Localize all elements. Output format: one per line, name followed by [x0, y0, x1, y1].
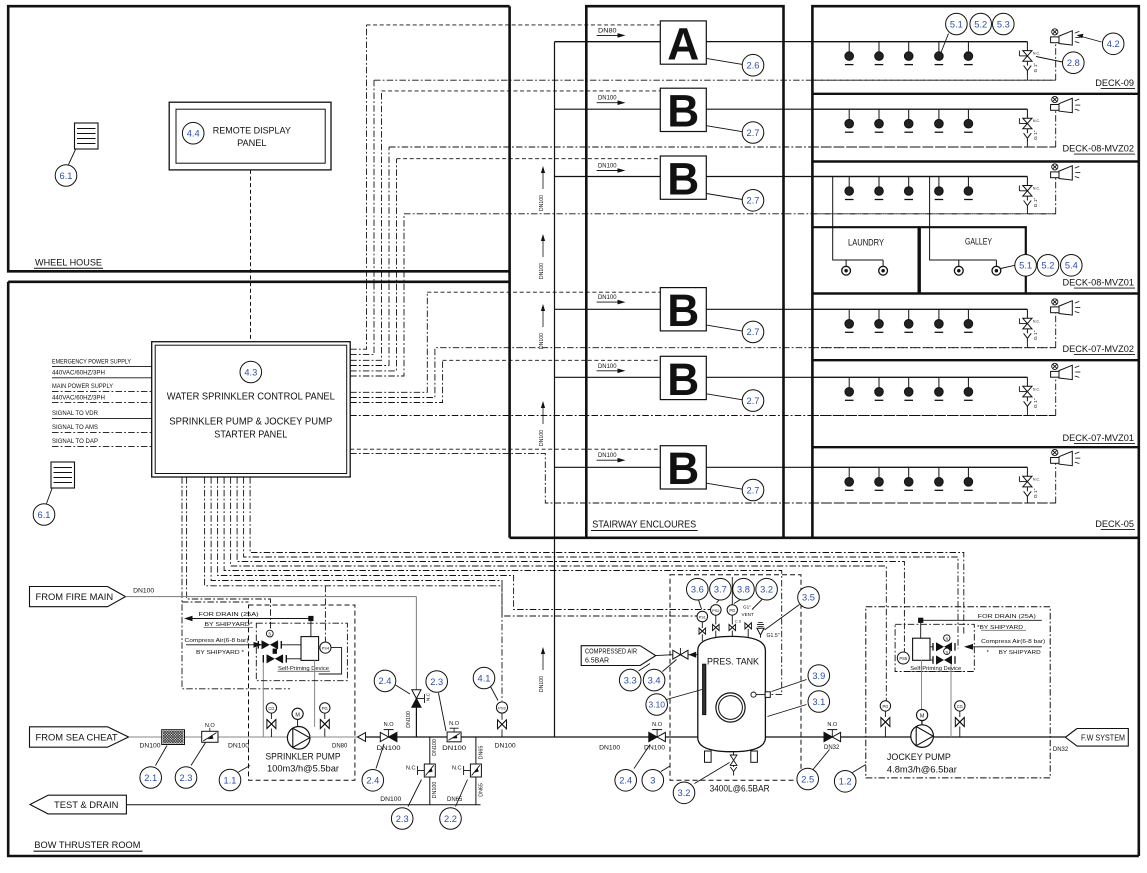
svg-text:PS5: PS5 — [899, 656, 908, 661]
circle 5.2 (galley) — [1037, 254, 1059, 276]
jockey compress air feed arrow — [966, 646, 1042, 648]
pressure switch PS1 — [697, 611, 708, 622]
main riser pipe DN100 to stairway — [554, 42, 556, 737]
DECK-07-MVZ02 sprinkler head 1 — [848, 309, 850, 319]
DECK-07-MVZ01 sprinkler head 4 — [938, 377, 940, 387]
leader to circle 6.1 lower — [47, 489, 53, 504]
leader deck-09 head to circle 5.1 — [941, 34, 949, 53]
zone B3 outlet pipe to deck-07-MVZ02 — [706, 308, 1027, 310]
zone A outlet pipe to deck-09 — [706, 41, 1027, 43]
DECK-08-MVZ02 sprinkler head 4 — [938, 109, 940, 119]
DECK-07-MVZ02 sprinkler branch pipe — [812, 308, 1027, 310]
alarm bell device 6.1 in wheel house — [75, 123, 99, 149]
fire main pipe — [126, 596, 417, 598]
svg-text:DN32: DN32 — [1053, 747, 1069, 753]
compound gauge CG sprinkler pump — [266, 703, 276, 713]
circle 5.3 (deck-09) — [993, 13, 1015, 35]
svg-text:DECK-07-MVZ01: DECK-07-MVZ01 — [1063, 433, 1134, 443]
stairway enclosure border — [586, 6, 783, 538]
control wire to pressure switch PS2 — [218, 477, 711, 609]
svg-text:FROM FIRE MAIN: FROM FIRE MAIN — [36, 591, 114, 602]
compress air feed arrow — [186, 644, 260, 646]
alarm test valve N.O rect (2.3) — [447, 732, 461, 742]
jockey pump unit dash-dot enclosure — [866, 607, 1050, 778]
control wire to stairway box B row2 — [350, 159, 396, 371]
leader to circle 2.1 — [156, 746, 168, 766]
drain valve N.C (2.2) — [470, 764, 481, 777]
laundry room box — [812, 227, 918, 293]
leader to circle 1.1 — [239, 766, 251, 773]
svg-text:SPRINKLER PUMP: SPRINKLER PUMP — [266, 750, 341, 761]
svg-text:3.2: 3.2 — [678, 788, 691, 798]
tank foot right — [751, 751, 758, 762]
svg-text:WHEEL HOUSE: WHEEL HOUSE — [35, 258, 102, 268]
svg-text:DECK-05: DECK-05 — [1095, 519, 1134, 529]
deck-07-MVZ02 / deck-07-MVZ01 boundary — [812, 359, 1138, 361]
circle 6.1 (wheel house) — [55, 165, 77, 187]
svg-text:DN100: DN100 — [539, 430, 545, 446]
circle 2.7 — [742, 190, 764, 212]
control wire to deck-09 alarm — [350, 80, 374, 354]
svg-text:STARTER PANEL: STARTER PANEL — [214, 430, 287, 441]
svg-text:2.4: 2.4 — [379, 676, 392, 686]
svg-text:4.8m3/h@6.5bar: 4.8m3/h@6.5bar — [887, 764, 957, 775]
jockey pump motor M — [917, 709, 928, 720]
DECK-05 alarm control wire — [812, 502, 1055, 504]
leader deck-09 valve to circle 2.8 — [1036, 57, 1063, 63]
deck bottom / pump room top wall — [510, 536, 1139, 539]
drain branch DN65 — [475, 737, 477, 805]
svg-text:100m3/h@5.5bar: 100m3/h@5.5bar — [267, 763, 339, 774]
svg-text:G 1": G 1" — [1033, 398, 1039, 408]
svg-text:DN100: DN100 — [599, 746, 621, 752]
DECK-09 sprinkler branch pipe — [812, 41, 1027, 43]
svg-text:3.6: 3.6 — [691, 585, 704, 595]
DECK-07-MVZ02 sprinkler head 4 — [938, 309, 940, 319]
svg-text:F.W SYSTEM: F.W SYSTEM — [1081, 732, 1125, 742]
svg-text:BY SHIPYARD: BY SHIPYARD — [999, 650, 1041, 656]
alarm bell device 6.1 lower — [51, 462, 75, 488]
tank inlet butterfly valve N.O — [649, 732, 657, 741]
svg-text:5.1: 5.1 — [1019, 261, 1032, 271]
section stop valve N.C. with test drain — [1026, 177, 1028, 186]
priming enclosure dash-dot box — [256, 623, 347, 681]
remote display panel U4.4 outer box — [169, 102, 331, 170]
DECK-05 sprinkler head 5 — [967, 467, 969, 477]
deck stack outer border — [812, 6, 1138, 856]
svg-text:G1.5": G1.5" — [767, 633, 780, 639]
FROM FIRE MAIN source arrow — [30, 587, 126, 607]
svg-text:CG: CG — [268, 706, 274, 711]
alarm bell with motor siren — [1052, 299, 1058, 305]
circle 3.5 and leader to relief valve — [765, 605, 800, 631]
circle 3.8 and leader to PG — [734, 600, 741, 604]
pressure switch PS5 — [897, 652, 909, 664]
section stop valve N.C. with test drain — [1026, 309, 1028, 318]
leader to circle 2.7 — [706, 325, 742, 331]
svg-text:REMOTE DISPLAY: REMOTE DISPLAY — [213, 126, 291, 136]
zone box B — [660, 288, 706, 331]
water sprinkler control panel 4.3 outer box — [152, 342, 351, 477]
sea chest strainer 2.1 — [162, 730, 185, 745]
svg-text:PS1: PS1 — [699, 615, 706, 620]
DECK-07-MVZ02 sprinkler head 3 — [908, 309, 910, 319]
DECK-08-MVZ01 sprinkler branch pipe — [812, 176, 1027, 178]
DECK-07-MVZ01 sprinkler head 5 — [967, 377, 969, 387]
DECK-08-MVZ01 sprinkler head 1 — [848, 177, 850, 187]
alarm bell with motor siren — [1052, 363, 1058, 369]
suction gate valve N.O (2.3) — [202, 731, 218, 742]
pipe tank to jockey area — [765, 736, 1065, 738]
deck-08-MVZ02 / deck-08-MVZ01 boundary — [812, 160, 1138, 162]
svg-text:N.C: N.C — [406, 766, 416, 772]
jockey drain junction square — [918, 618, 923, 623]
zone B2 outlet pipe to deck-08-MVZ01 — [706, 176, 1027, 178]
leader to circle 3.10 — [667, 690, 703, 700]
DECK-08-MVZ02 sprinkler branch pipe — [812, 108, 1027, 110]
discharge butterfly valve N.O (2.4) — [380, 732, 388, 741]
dashed enclosure drain/air hookup (by shipyard) — [182, 477, 290, 689]
jockey compound gauge CG — [955, 701, 965, 711]
svg-text:1.1: 1.1 — [224, 775, 237, 785]
DECK-09 alarm control wire — [812, 79, 1055, 81]
svg-text:3.1: 3.1 — [812, 697, 825, 707]
DECK-09 sprinkler head 5 — [967, 42, 969, 52]
svg-text:3400L@6.5BAR: 3400L@6.5BAR — [710, 784, 770, 794]
svg-text:5.4: 5.4 — [1065, 261, 1078, 271]
galley sprinkler head 2 (open pendent) — [995, 260, 997, 266]
circle 4.1 — [473, 667, 495, 689]
deck-07-MVZ01 / deck-05 boundary — [812, 446, 1138, 448]
DECK-07-MVZ01 sprinkler head 3 — [908, 377, 910, 387]
svg-text:2.8: 2.8 — [1067, 58, 1080, 68]
svg-text:DN100: DN100 — [406, 711, 412, 728]
DECK-05 sprinkler branch pipe — [812, 466, 1027, 468]
remote display panel inner box — [176, 109, 325, 163]
leader to circle 2.3 (suction valve) — [191, 743, 206, 766]
svg-text:GALLEY: GALLEY — [965, 237, 992, 247]
svg-text:DN32: DN32 — [824, 745, 840, 751]
svg-text:DN100: DN100 — [442, 745, 467, 752]
circle 2.7 — [742, 122, 764, 144]
zone box B — [660, 356, 706, 399]
svg-text:SIGNAL TO DAP: SIGNAL TO DAP — [52, 439, 98, 445]
jockey pressure gauge PG — [880, 701, 890, 711]
circle 5.2 (deck-09) — [970, 13, 992, 35]
circle 2.1 — [140, 767, 162, 789]
svg-text:FOR DRAIN (25A): FOR DRAIN (25A) — [978, 614, 1036, 620]
control wire to pressure switch PS5 — [237, 477, 904, 652]
pressure switch PS3 sensing branch — [501, 730, 503, 738]
svg-text:M: M — [295, 712, 300, 718]
main discharge pipe to system — [366, 736, 698, 738]
alarm bell with motor siren — [1052, 164, 1058, 170]
svg-text:G 1": G 1" — [1033, 130, 1039, 140]
svg-text:BY SHIPYARD *: BY SHIPYARD * — [196, 650, 245, 656]
riser top run into box A — [555, 41, 661, 43]
svg-text:DN100: DN100 — [377, 745, 402, 752]
wheel house room border — [8, 6, 509, 271]
DECK-08-MVZ02 sprinkler head 2 — [878, 109, 880, 119]
leader to circle 2.3 (alarm test) — [439, 693, 447, 731]
circle 2.5 — [797, 768, 819, 790]
svg-text:2.6: 2.6 — [747, 61, 760, 71]
control wire to stairway box B row5 — [350, 448, 660, 450]
DECK-08-MVZ02 sprinkler head 5 — [967, 109, 969, 119]
leader to circle 3.2 (tank drain) — [695, 763, 730, 784]
circle 2.8 — [1063, 52, 1085, 74]
svg-text:Compress Air(6-8 bar): Compress Air(6-8 bar) — [185, 638, 249, 644]
svg-text:DN100: DN100 — [133, 589, 155, 595]
circle 2.7 — [742, 390, 764, 412]
svg-text:SPRINKLER PUMP & JOCKEY PUMP: SPRINKLER PUMP & JOCKEY PUMP — [169, 417, 332, 428]
svg-text:2.1: 2.1 — [144, 773, 157, 783]
zone valve box B feed line — [555, 376, 661, 378]
svg-text:2.7: 2.7 — [747, 396, 760, 406]
svg-text:N.C.: N.C. — [1033, 119, 1040, 123]
control wire to jockey pump gauge PG — [231, 477, 887, 701]
PS3 isolation valve — [498, 720, 507, 729]
leader to circle 4.1 — [491, 687, 499, 701]
DECK-09 sprinkler head 1 — [848, 42, 850, 52]
svg-text:2.5: 2.5 — [801, 774, 814, 784]
leader to circle 3.1 from tank shell — [768, 705, 807, 717]
svg-text:3.2: 3.2 — [760, 585, 773, 595]
circle 3.6 and leader to PS1 — [699, 600, 702, 609]
leader deck-09 horn to circle 4.2 with arrow — [1078, 36, 1102, 43]
svg-text:6.1: 6.1 — [38, 510, 51, 520]
svg-text:FROM SEA CHEAT: FROM SEA CHEAT — [36, 731, 118, 742]
jockey priming dash-dot box — [895, 624, 974, 671]
svg-text:4.3: 4.3 — [244, 367, 257, 377]
svg-text:EMERGENCY POWER SUPPLY: EMERGENCY POWER SUPPLY — [52, 359, 131, 365]
svg-text:5.1: 5.1 — [950, 19, 963, 29]
svg-text:3.4: 3.4 — [648, 675, 661, 685]
svg-text:2.2: 2.2 — [444, 814, 457, 824]
pressure tank unit dashed enclosure — [670, 575, 801, 781]
circle 2.4 (discharge valve) — [362, 770, 384, 792]
DECK-08-MVZ01 alarm control wire — [812, 213, 1055, 215]
COMPRESSED AIR source arrow — [581, 646, 656, 666]
zone box B — [660, 446, 706, 489]
galley room box — [920, 227, 1026, 293]
svg-text:JOCKEY PUMP: JOCKEY PUMP — [887, 751, 951, 762]
svg-text:N.O: N.O — [652, 722, 663, 728]
leader to circle 2.6 — [706, 58, 742, 64]
wire branch down to PS4 — [324, 586, 326, 642]
drain junction square — [308, 616, 313, 621]
svg-text:PG: PG — [882, 704, 888, 709]
svg-text:DN100: DN100 — [432, 739, 438, 756]
circle 3.10 — [646, 694, 668, 716]
circle 3.2 (tank drain) — [673, 782, 695, 804]
svg-text:N.C: N.C — [452, 766, 462, 772]
leader to circle 2.7 — [706, 126, 742, 132]
svg-text:N.O: N.O — [384, 722, 395, 728]
jockey priming solenoid valve 1 — [936, 642, 944, 651]
laundry sprinkler head 2 (open pendent) — [882, 260, 884, 266]
svg-text:2.7: 2.7 — [747, 196, 760, 206]
svg-text:N.C: N.C — [426, 692, 431, 701]
suction pipe from sea chest — [129, 736, 287, 738]
svg-text:DN100: DN100 — [539, 263, 545, 279]
alarm bell with motor siren — [1052, 449, 1058, 455]
svg-text:M: M — [920, 714, 925, 720]
for-drain line (25A) by shipyard — [189, 618, 311, 620]
svg-text:DECK-07-MVZ02: DECK-07-MVZ02 — [1063, 344, 1134, 354]
DECK-07-MVZ02 sprinkler head 5 — [967, 309, 969, 319]
laundry branch drop pipe — [833, 177, 883, 261]
svg-text:TEST & DRAIN: TEST & DRAIN — [54, 799, 118, 810]
circle 2.7 — [742, 321, 764, 343]
circle 2.4 (fire main check valve) — [374, 670, 396, 692]
zone valve box B feed line — [555, 466, 661, 468]
air inlet arrow into tank — [688, 654, 698, 656]
pressure tank vessel — [698, 636, 766, 751]
tank vent G1 inch — [747, 629, 749, 638]
svg-text:DN100: DN100 — [598, 163, 617, 170]
svg-text:2.4: 2.4 — [366, 776, 379, 786]
svg-text:CG: CG — [957, 704, 963, 709]
control wire to jockey priming solenoid 1 — [244, 477, 958, 648]
svg-text:6.1: 6.1 — [60, 171, 73, 181]
svg-text:3.3: 3.3 — [624, 675, 637, 685]
test and drain header pipe — [126, 804, 480, 806]
svg-text:BOW THRUSTER ROOM: BOW THRUSTER ROOM — [34, 840, 140, 851]
svg-text:STAIRWAY ENCLOURES: STAIRWAY ENCLOURES — [592, 520, 696, 531]
svg-text:Compress Air(6-8 bar): Compress Air(6-8 bar) — [981, 639, 1045, 645]
test drain valve N.C (2.3) — [424, 764, 435, 777]
svg-text:Self-Priming Device: Self-Priming Device — [278, 666, 329, 672]
pressure gauge PG tank — [727, 605, 737, 615]
tank safety relief valve G1.5 inch — [760, 635, 762, 638]
circle 4.4 — [182, 122, 204, 144]
svg-text:FOR DRAIN (25A): FOR DRAIN (25A) — [199, 612, 259, 618]
circle 4.3 — [240, 361, 262, 383]
circle 2.4 (tank inlet valve) — [615, 770, 637, 792]
svg-text:2.4: 2.4 — [619, 776, 632, 786]
priming pipe drops to pump casing — [262, 663, 264, 737]
tank level gauge glass — [703, 664, 706, 714]
circle 2.3 (test drain) — [391, 808, 413, 830]
svg-text:440VAC/60HZ/3PH: 440VAC/60HZ/3PH — [52, 371, 105, 377]
control wire to tank level switch 3.9 — [224, 477, 782, 694]
svg-text:1.2: 1.2 — [839, 777, 852, 787]
tank nozzle PG — [731, 631, 733, 637]
wire branch down to PS3 — [501, 586, 503, 701]
zone valve box A feed line — [555, 41, 661, 43]
pump discharge pipe — [310, 736, 358, 738]
DECK-08-MVZ02 alarm control wire — [812, 146, 1055, 148]
circle 2.2 — [440, 808, 462, 830]
svg-text:DN80: DN80 — [332, 744, 348, 750]
circle 3.1 — [808, 691, 830, 713]
jockey priming pipe drops — [921, 660, 923, 725]
control wire to stairway box B row3 — [350, 292, 427, 392]
galley sprinkler head 1 (open pendent) — [958, 260, 960, 266]
leader to circle 6.1 — [69, 150, 76, 165]
leader to circle 2.5 — [813, 750, 830, 770]
circle 5.1 (galley) — [1015, 254, 1037, 276]
svg-text:3.9: 3.9 — [812, 671, 825, 681]
tank nozzle PS1 — [701, 634, 703, 641]
leader to circle 1.2 — [853, 765, 866, 773]
DECK-07-MVZ01 sprinkler branch pipe — [812, 376, 1027, 378]
svg-text:DN100: DN100 — [539, 333, 545, 349]
svg-text:PS2: PS2 — [712, 608, 719, 613]
svg-text:C.S: C.S — [735, 620, 742, 624]
svg-text:N.C.: N.C. — [1033, 187, 1040, 191]
deck-08-MVZ01 / deck-07-MVZ02 boundary — [812, 292, 1138, 294]
DECK-05 sprinkler head 1 — [848, 467, 850, 477]
leader to circle 2.2 — [456, 780, 468, 807]
zone valve box B feed line — [555, 308, 661, 310]
pressure switch PS3 — [496, 702, 507, 713]
section stop valve N.C. with test drain — [1026, 467, 1028, 476]
control wire to pressure switches PS4 and PS3 — [205, 477, 502, 586]
discharge diffuser cone — [358, 733, 366, 742]
fire main check valve (spring loaded) — [412, 690, 421, 699]
svg-text:2.3: 2.3 — [396, 814, 409, 824]
svg-text:B: B — [667, 285, 699, 336]
svg-text:BY SHIPYARD*: BY SHIPYARD* — [205, 622, 254, 628]
DECK-08-MVZ02 sprinkler head 3 — [908, 109, 910, 119]
control wire to sprinkler priming solenoid 2 — [187, 477, 271, 633]
circle 1.1 — [219, 769, 241, 791]
svg-text:PRES. TANK: PRES. TANK — [707, 657, 760, 668]
svg-text:5.2: 5.2 — [1042, 261, 1055, 271]
DECK-08-MVZ02 sprinkler head 1 — [848, 109, 850, 119]
leader to circle 2.4 (discharge valve) — [376, 744, 384, 769]
section stop valve N.C. with test drain — [1026, 42, 1028, 51]
pressure switch PS4 — [320, 642, 331, 653]
DECK-07-MVZ01 alarm control wire — [812, 415, 1055, 417]
jockey pump P2 — [911, 725, 934, 748]
svg-text:4.2: 4.2 — [1107, 39, 1120, 49]
circle 3.2 and leader to vent — [752, 600, 762, 610]
circle 2.3 (suction valve) — [175, 767, 197, 789]
DECK-05 sprinkler head 2 — [878, 467, 880, 477]
svg-text:2.7: 2.7 — [747, 485, 760, 495]
leader to circle 2.7 — [706, 194, 742, 200]
DECK-08-MVZ01 sprinkler head 2 — [878, 177, 880, 187]
tank drain valve and funnel — [733, 752, 735, 755]
control wire to deck-05 alarm — [350, 453, 1055, 503]
svg-text:DN100: DN100 — [228, 744, 250, 750]
DECK-07-MVZ02 sprinkler head 2 — [878, 309, 880, 319]
svg-text:S: S — [945, 636, 948, 641]
circle 3.3 — [639, 664, 651, 672]
bow thruster room border — [8, 282, 1139, 856]
priming solenoid valve 1 — [262, 640, 270, 649]
sprinkler pump unit dashed enclosure — [249, 605, 355, 780]
leader to circle 2.7 — [706, 394, 742, 400]
circle 3.9 — [808, 665, 830, 687]
svg-text:2.7: 2.7 — [747, 327, 760, 337]
svg-text:SIGNAL TO VDR: SIGNAL TO VDR — [52, 411, 99, 417]
svg-text:*BY SHIPYARD: *BY SHIPYARD — [977, 625, 1023, 631]
svg-text:SIGNAL TO AMS: SIGNAL TO AMS — [52, 425, 98, 431]
PS4 sense loop — [319, 648, 342, 674]
leader galley head to circle 5.1 — [1001, 265, 1015, 268]
zone B5 outlet pipe to deck-05 — [706, 466, 1027, 468]
FROM SEA CHEAT source arrow — [30, 727, 129, 747]
laundry sprinkler head 1 (open pendent) — [845, 260, 847, 266]
svg-text:PG: PG — [322, 706, 328, 711]
leader to circle 2.4 (check valve) — [396, 685, 411, 694]
DECK-09 sprinkler head 2 — [878, 42, 880, 52]
circle 2.7 — [742, 479, 764, 501]
